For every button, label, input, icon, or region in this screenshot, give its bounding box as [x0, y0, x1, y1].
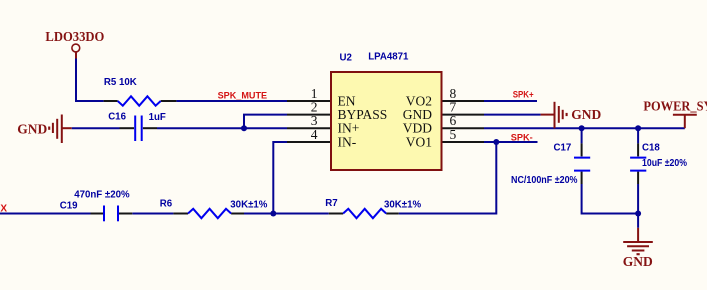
- svg-text:30K±1%: 30K±1%: [230, 200, 267, 211]
- svg-text:470nF ±20%: 470nF ±20%: [74, 190, 130, 201]
- svg-text:5: 5: [450, 127, 457, 142]
- svg-text:C17: C17: [554, 143, 572, 154]
- svg-text:C18: C18: [642, 143, 660, 154]
- svg-text:U2: U2: [340, 52, 352, 63]
- svg-text:SPK-: SPK-: [511, 132, 533, 143]
- svg-text:NC/100nF ±20%: NC/100nF ±20%: [511, 175, 578, 186]
- svg-text:SPK+: SPK+: [513, 89, 534, 100]
- svg-text:4: 4: [311, 127, 318, 142]
- svg-text:R6: R6: [160, 198, 173, 209]
- svg-text:VO1: VO1: [406, 135, 432, 150]
- svg-text:IN-: IN-: [338, 135, 357, 150]
- svg-text:LDO33DO: LDO33DO: [45, 29, 104, 44]
- svg-text:VDD: VDD: [403, 121, 432, 136]
- svg-text:R5 10K: R5 10K: [104, 77, 137, 88]
- svg-text:1uF: 1uF: [149, 112, 166, 123]
- svg-text:POWER_SYS: POWER_SYS: [643, 98, 707, 113]
- svg-text:IN+: IN+: [338, 121, 360, 136]
- svg-text:SPK_MUTE: SPK_MUTE: [218, 91, 268, 102]
- svg-text:GND: GND: [17, 122, 47, 137]
- svg-text:10uF ±20%: 10uF ±20%: [642, 158, 687, 169]
- svg-text:3: 3: [311, 113, 318, 128]
- svg-text:C19: C19: [60, 201, 78, 212]
- svg-text:LPA4871: LPA4871: [368, 52, 409, 63]
- svg-text:X: X: [0, 204, 7, 215]
- svg-text:30K±1%: 30K±1%: [384, 200, 421, 211]
- svg-text:GND: GND: [571, 107, 601, 122]
- svg-text:R7: R7: [325, 198, 337, 209]
- svg-text:GND: GND: [623, 254, 653, 269]
- svg-text:6: 6: [450, 113, 457, 128]
- svg-text:C16: C16: [108, 112, 126, 123]
